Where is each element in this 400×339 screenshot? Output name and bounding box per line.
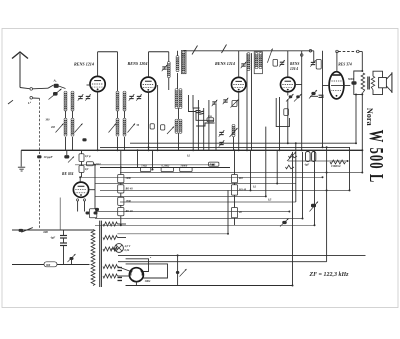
junction dot 3 [238,149,240,151]
wire output transformer top lead [359,51,362,53]
wire B2-B3 [234,195,236,207]
arrow pot [287,152,296,161]
coil IF1a [175,89,178,109]
capacitor 41uF upper [60,236,67,239]
ladder wire y233 [117,233,228,235]
bandfilter box [254,52,262,74]
mains wire 300 [12,264,44,266]
trimmer capacitor osc C6 [212,100,218,106]
text Nora [365,108,374,126]
wire mains cap up [71,260,73,265]
wire L5 bottom down [168,78,170,90]
wire mixer S-bend B [193,95,200,108]
capacitor bars V5 grid [319,95,324,97]
capacitor C12 near V5 [310,60,316,66]
wire w1 right [117,223,126,225]
resistor box under V4 [284,109,289,116]
coil IF2b [179,119,182,133]
ladder wire y147 [100,146,350,148]
ladder wire y285 [126,285,293,287]
wire vertical mixer b [197,100,199,150]
coil L1b antenna secondary [71,91,74,111]
bracket wire under V4 [276,98,289,127]
resistor box ca 1k [86,162,93,166]
junction dot y147 x148 [148,146,150,148]
capacitor det C11 [279,60,285,66]
capacitor antenna series (A) [54,84,59,88]
ground symbol [18,167,25,171]
wire vertical mixer a [192,108,194,150]
svg-text:5000: 5000 [126,177,132,180]
junction dot 2 [148,149,150,151]
capacitor blob left of detector [64,155,69,158]
coil L5 osc coupling [167,62,170,78]
tube V5 RES 374 oval [329,72,344,99]
coil IF1b [179,89,182,109]
coil L3a [116,91,119,111]
capacitor tilted bars mixer [199,111,204,114]
wire vertical x292 [292,152,294,286]
wire top loop V1 horizontal [98,51,118,53]
wire primary bottom [361,93,363,95]
junction dot 9 [287,142,289,144]
junction dot 5 [79,176,81,178]
arrow on detector cap [68,157,74,163]
top rail corner down [313,51,315,62]
junction x349 y190 [349,189,351,191]
wire vertical x250 below bus [250,150,252,190]
capacitor shunt loop [354,71,363,94]
trimmer capacitor osc C7 [223,98,229,104]
trimmer capacitor C5 [162,65,168,71]
resistor stack A1 [118,175,124,183]
wire L4a bottom to bus [117,137,119,150]
trimmer capacitor pad C8 [219,130,225,136]
ladder wire y202 [120,201,296,203]
junction x250 y190 [250,189,252,191]
arrow mains cap [68,254,76,262]
resistor box det [273,59,278,66]
wire 600 to transformer [40,229,94,231]
wire tube V4 caps down to ladder [287,99,289,143]
wave switch arrow S1a [56,124,64,133]
wire tube V5 grid left [323,85,330,87]
transformer secondary w4 [103,265,117,269]
wire coil V3 to bus [233,137,235,150]
junction dot 19 [120,167,122,169]
resistor pot wavy [289,154,298,158]
switch arrow IF [267,49,272,63]
svg-text:RENS: RENS [290,62,299,66]
wire L2a bottom to chassis bus [65,137,67,150]
wire tube V5 top to rail [336,52,338,72]
wire ladder corner x349 [349,147,351,190]
primary tap box [89,209,96,218]
junction dot 8 [326,146,328,148]
connector rail left [336,50,339,53]
junction x137 bus [137,149,139,151]
junction V4 left leg bus [279,149,281,151]
trimmer capacitor C10 [241,62,247,68]
capacitor bars rect [118,268,123,281]
wire vertical x326 [326,147,328,261]
resistor 7Mohm [140,167,150,171]
transformer secondary w5 [103,274,117,278]
junction dot 13 [361,149,363,151]
wave switch arrow S2a [109,124,117,133]
svg-text:RENS 1214: RENS 1214 [215,61,235,66]
speaker coil bottom loop [373,88,383,95]
wire L1b bottom to L2b [72,111,74,119]
wire V6 pin right down [84,201,86,206]
junction V5 grid line [322,95,324,97]
capacitor 10uuF on bus [37,155,41,158]
rectifier tube 1064 [129,268,143,282]
wire vertical V5 grid line [322,51,324,148]
tube V6 pin left [77,199,79,201]
junction dot 15 [361,172,363,174]
ladder wire y190 [100,189,350,191]
ladder wire y218 [95,218,303,220]
connector on V4 anode line [300,54,303,57]
wire vertical V4 anode down [301,51,303,151]
junction x314 y225 [314,224,316,226]
wire IF2 bottom to bus [178,133,180,150]
wire A4 down [120,216,122,226]
arrow trimmer under V3 [231,100,239,108]
chassis bus main [21,149,362,151]
wire L6 coil bottom down [177,73,179,89]
junction dot y172 x326 [326,172,328,174]
junction dot y255 x177 [177,254,179,256]
coil L7 oscillator [182,51,185,73]
wire V6 pin left down [77,201,79,206]
wire cap to coil L1 top [59,86,66,89]
capacitor 41uF lower [60,243,67,246]
svg-text:50000: 50000 [181,164,188,167]
coil L1a antenna primary [64,91,67,111]
junction dot stackB [234,149,236,151]
transformer secondary w3 [103,247,117,251]
wire V6 right side [89,189,95,191]
output transformer primary winding [361,73,365,93]
svg-text:RO 40: RO 40 [126,188,134,191]
capacitor mains a [70,257,74,260]
capacitor wax right [311,204,316,208]
svg-text:5000: 5000 [348,78,354,81]
trimmer capacitor C1 [78,94,84,100]
wire vertical mixer d [208,100,210,150]
wire top loop V1 right leg down [117,52,119,92]
tube V3 RENS 1214 [232,77,246,91]
wire L3a-L4a [117,111,119,119]
junction dot y190 x326 [326,189,328,191]
top rail wire segment [184,50,314,52]
junction dot 17 [117,149,119,151]
wire tube V1 left stub [87,84,91,86]
wire top loop V2 horizontal [149,51,169,53]
wire tube V4 grid top [287,51,289,77]
arrow wax cap [310,202,319,212]
coil L3b [123,91,126,111]
wire w2 right [117,237,126,239]
ladder wire y165 [75,164,213,166]
resistor stack A2 [118,185,124,193]
junction dot 16 [355,142,357,144]
capacitor box 0,1uF lower [79,166,84,173]
junction dot w1 [120,224,122,226]
resistor 15000 wavy [330,160,346,164]
wire rect to bus [135,282,137,286]
wire vertical IF2 right [251,53,253,150]
svg-text:Ca: Ca [208,114,212,118]
svg-text:RENS 1214: RENS 1214 [74,62,94,67]
junction x265 y196 [265,195,267,197]
ladder wire y167 resistor row [100,167,230,169]
wire tube V2 anode side down [157,85,159,150]
ladder wire y255 [118,254,366,256]
junction x362 y94 low [355,94,357,96]
resistor lower wavy [286,165,295,169]
trimmer capacitor C2 [85,94,91,100]
svg-text:Aᵤ: Aᵤ [53,79,57,83]
connector rail right [357,50,360,53]
output transformer secondary winding [371,76,374,90]
junction x292 y285 [292,285,294,287]
svg-text:0,1MΩ: 0,1MΩ [162,164,170,167]
wire vertical x137 bus to resistor row [137,150,139,167]
coil IF4b [259,53,262,69]
wire x81 to detector top [81,173,83,178]
junction transformer bottom [361,93,363,95]
trimmer arrow on earth cap [49,89,62,100]
junction dot 11 [192,149,194,151]
trimmer capacitor C4 [136,94,142,100]
junction x289 y211 [288,211,290,213]
trimmer capacitor pad C9 [219,140,225,146]
arrow cap V4 b [294,94,302,102]
wire vertical x302 [302,152,304,219]
wire tube V5 anode right [342,85,350,87]
coil IF3 [247,53,250,71]
svg-text:0,34: 0,34 [125,249,130,252]
wire vertical mixer x216 [215,105,217,150]
wave switch arrow S1b [75,124,83,133]
capacitor earth blocking [53,92,58,96]
wire B1-B2 [234,183,236,185]
svg-text:1500: 1500 [126,200,132,203]
coil L2a [64,118,67,136]
wire tube V1 cathode down to bus [97,92,99,151]
capacitor box 0,1uF upper [79,154,84,162]
wire L6 coil top to rail [177,51,179,56]
wire mixer lower bend [196,123,214,126]
capacitor blob left ladder [95,208,99,211]
wire x81 bus to boxes [81,150,83,154]
wire primary top [92,229,94,232]
wire IF coils join [178,108,180,120]
wire jack to antenna cap [33,87,48,90]
svg-text:0,1·: 0,1· [85,168,89,171]
wire caps bottom [63,246,65,265]
top rail speaker segment [338,51,356,53]
wire L4b bottom to bus [124,137,126,150]
text W 500 L [365,130,388,184]
resistor box grid V5 [316,60,321,70]
wire rect filament b [117,275,129,277]
ladder wire y172 [120,172,362,174]
wire L3b-L4b [124,111,126,119]
svg-text:300: 300 [45,119,51,122]
junction x95 y164 [94,164,96,166]
transformer secondary w1 [103,222,117,226]
wire L2b bottom to bus [72,137,74,150]
capacitor near y222 [282,221,286,224]
wire lamp loop [111,248,117,250]
junction dot 4 [177,272,179,274]
wire rect bottom bus [126,285,137,287]
tube V6 pin right [83,199,85,201]
wire stack B vertical top [234,150,236,174]
ladder wire y261 [118,261,327,263]
wire tube V1 grid top to rail [97,52,99,77]
ladder wire y177 [80,176,323,178]
capacitor 5000 shunt [351,81,356,84]
trimmer box under V3 [232,101,237,107]
junction blob x177 [176,271,179,274]
wire caps mid [63,238,65,243]
capacitor coupling V5 [311,92,315,95]
svg-text:ca 1kΩ: ca 1kΩ [93,163,101,166]
mains wire 600 [12,229,40,231]
wire detector pin right down [84,206,86,212]
wire tube V2 cathode down to bus [148,92,150,150]
antenna jack A [30,88,33,91]
svg-text:7MΩ: 7MΩ [141,164,147,167]
coil IF2a [175,119,178,133]
wire V4 anode right [295,84,302,86]
junction dot y143 x295 [295,142,297,144]
resistor stack A4 [118,208,124,216]
wire vertical x295 [295,143,297,202]
wire antenna to input jack [20,88,30,89]
tube V1 RENS 1214 [90,76,105,91]
svg-text:10 μμF: 10 μμF [44,155,53,159]
wire vertical x265 to V4 bracket [265,127,267,197]
svg-text:15000 Ω: 15000 Ω [331,165,340,168]
wire x81 between boxes [81,162,83,166]
capacitor padding black [82,138,86,141]
svg-text:W 500 L: W 500 L [365,130,388,184]
electrolytic capacitor pair [306,152,316,162]
svg-text:4,5 V: 4,5 V [124,245,131,248]
junction transformer top [361,70,363,72]
wire left frame mark [8,100,13,104]
wire vertical x152 bus to row [152,150,154,169]
wire transformer primary drop [361,52,363,72]
junction x302 y218 [302,218,304,220]
wire 300 to transformer [57,264,90,266]
ladder wire y183 [95,183,296,185]
arrow coupling V5 [309,90,317,99]
speaker coil top loop [373,71,383,77]
junction dot 14 [347,160,349,162]
wire vertical x314 [314,150,316,225]
junction dot 10 [246,149,248,151]
long vertical wire from L jack down to mains switch [39,98,41,230]
wire cluster to V5 grid [310,95,318,97]
ground drop from bus [20,150,22,166]
resistor box 2Mohm [150,124,154,129]
wire V6 top cap [79,177,81,182]
wire earth jack right [33,97,40,99]
dial lamp [115,244,124,253]
resistor stack A3 [118,197,124,205]
mains switch 600 [19,228,33,233]
capacitor under V4 b [296,95,300,98]
coil L4a [116,118,119,136]
power transformer core [100,221,102,287]
coil IF4a [255,53,258,69]
wire vertical mixer c [203,108,205,150]
junction dot 18 [212,164,214,166]
trimmer capacitor C3 [129,94,135,100]
resistor stack B3 [231,208,237,218]
wire A2-A3 [120,193,122,197]
tube V2 RENS 1204 [141,77,156,92]
coil L4b [123,118,126,136]
wire detector pin left down [77,206,79,212]
wire caps top [63,230,65,236]
junction x277 y183 [276,183,278,185]
oscillator coil box [182,50,187,73]
wire A3-A4 [120,205,122,207]
svg-text:126 4: 126 4 [290,67,298,71]
wire L1a bottom to L2a [65,111,67,119]
junction dot 1 [97,149,99,151]
resistor 0,1Mohm [161,167,173,171]
resistor stack B2 [231,185,237,195]
svg-text:RE 034: RE 034 [62,172,74,176]
capacitor primary b [94,212,98,215]
wire vertical x277 below bus [276,150,278,183]
wire tube V4 left leg down [279,97,281,150]
tube V6 RE 034 [73,182,88,197]
junction x228 y233 [227,233,229,235]
switch slash on rail B [222,45,227,54]
power transformer primary winding [91,230,95,286]
wire bus to detector cap [66,150,68,155]
arrow cap V4 a [286,94,294,102]
wire B3 down [234,218,236,226]
svg-text:200: 200 [50,126,56,129]
ladder wire y225 [95,224,315,226]
wire tube V2 grid top to rail [148,52,150,77]
ladder wire y211 [95,211,289,213]
svg-text:ZF = 122,3 kHz: ZF = 122,3 kHz [309,272,350,278]
svg-text:RES 374: RES 374 [338,63,352,67]
coil L2b [71,118,74,136]
capacitor primary a [86,212,90,215]
wire A1-A2 [120,183,122,185]
wire x177 vertical [177,255,179,285]
fuse 300 [44,262,57,267]
box 5000 right [209,162,219,166]
ladder wire y196 [95,195,266,197]
resistor stack B1 [231,175,237,183]
svg-text:4μF: 4μF [304,164,310,167]
switch arrow under V2 [167,127,174,135]
